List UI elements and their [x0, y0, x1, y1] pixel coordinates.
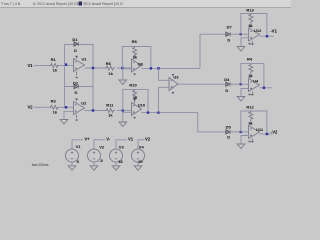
wire right vertical clamp bus — [92, 44, 94, 111]
svg-text:U11: U11 — [256, 127, 264, 132]
ground U4 — [237, 89, 248, 102]
node junction A out — [266, 35, 268, 37]
op-amp U8 — [132, 56, 144, 75]
svg-text:V+: V+ — [84, 136, 90, 141]
svg-text:1k: 1k — [53, 110, 58, 115]
node V1 rail label — [128, 136, 134, 141]
svg-text:U2: U2 — [81, 101, 87, 106]
node junction stage C in — [240, 131, 242, 133]
svg-text:V3: V3 — [119, 144, 125, 149]
node V2 rail label — [145, 136, 151, 141]
svg-text:D2: D2 — [73, 80, 79, 85]
svg-text:U8: U8 — [138, 61, 144, 66]
svg-text:V-: V- — [106, 136, 111, 141]
wire V2 to R3 — [34, 106, 49, 108]
node junction U2 -in — [65, 106, 67, 108]
resistor R1 — [49, 57, 59, 73]
op-amp U2 — [74, 98, 88, 120]
resistor R12 — [246, 105, 254, 126]
diode D5 — [226, 125, 241, 140]
wire U3 upper input tap — [159, 68, 170, 80]
svg-text:U4: U4 — [253, 78, 259, 83]
wire U1 output — [85, 67, 106, 69]
svg-text:V2: V2 — [99, 144, 105, 149]
resistor R13 — [246, 8, 254, 28]
svg-text:D4: D4 — [224, 77, 230, 82]
wire R6 to U8 — [117, 67, 132, 69]
svg-text:V2: V2 — [28, 105, 34, 110]
ground U12 — [237, 38, 248, 51]
svg-text:R11: R11 — [106, 102, 114, 107]
svg-text:R4: R4 — [247, 57, 253, 62]
svg-text:R8: R8 — [132, 39, 138, 44]
svg-text:R13: R13 — [246, 8, 254, 13]
svg-text:D7: D7 — [227, 25, 233, 30]
wire U8 feedback loop — [122, 47, 150, 69]
wire R3 to U2 — [59, 106, 73, 108]
node junction row2 out 1 — [147, 111, 149, 113]
wire R1 to U1 input — [59, 65, 73, 67]
spice directive — [31, 163, 49, 167]
svg-text:U10: U10 — [138, 102, 146, 107]
voltage source V3 — [110, 140, 128, 166]
op-amp U4 — [249, 76, 260, 95]
diode D4 — [224, 77, 241, 93]
wire U8 output to x200 — [142, 67, 201, 69]
ground V4 — [134, 166, 142, 170]
op-amp U11 — [249, 123, 264, 142]
ground V3 — [112, 166, 120, 170]
svg-text:U12: U12 — [254, 28, 262, 33]
node junction U10 in — [122, 109, 124, 111]
svg-text:V2: V2 — [145, 136, 151, 141]
resistor R4 — [247, 57, 253, 78]
svg-text:RC2 circuit Report (10 G: RC2 circuit Report (10 G — [84, 2, 124, 6]
svg-text:D: D — [75, 90, 78, 95]
svg-text:1k: 1k — [53, 67, 58, 72]
svg-text:R3: R3 — [51, 98, 57, 103]
ground U2 — [60, 111, 73, 124]
svg-text:D: D — [74, 48, 77, 53]
node junction U1 -in — [65, 63, 67, 65]
wire V1 to R1 — [34, 65, 49, 67]
title bar — [0, 0, 291, 8]
wire R11 to U10 — [117, 110, 132, 112]
voltage source V4 — [132, 140, 145, 166]
voltage source V1 — [66, 140, 84, 166]
svg-text:V1: V1 — [28, 63, 34, 68]
node junction out 2 — [157, 67, 159, 69]
node V1 input label — [28, 63, 34, 68]
svg-text:1k: 1k — [248, 121, 253, 126]
op-amp U1 — [74, 56, 88, 78]
svg-text:-V1: -V1 — [270, 28, 277, 33]
node V2 input label — [28, 105, 34, 110]
wire U10 output run — [142, 113, 226, 132]
wire stage A input stub — [241, 33, 249, 35]
ground U11 — [237, 136, 248, 149]
wire stage C input stub — [241, 131, 249, 133]
wire U10 feedback loop — [123, 89, 148, 112]
wire stage B input stub — [241, 83, 249, 85]
svg-text:R10: R10 — [129, 82, 137, 87]
svg-text:D5: D5 — [226, 125, 232, 130]
wire U3 lower input tap — [159, 87, 170, 112]
svg-text:V1: V1 — [76, 144, 82, 149]
svg-text:D: D — [227, 38, 230, 43]
wire U12 output — [260, 35, 274, 37]
svg-text:U3: U3 — [173, 74, 179, 79]
ground U10 — [119, 112, 132, 126]
wire stage C feedback loop — [241, 111, 267, 134]
svg-text:R1: R1 — [51, 57, 57, 62]
op-amp U10 — [132, 99, 146, 118]
svg-text:D: D — [225, 88, 228, 93]
node junction B out — [263, 87, 265, 89]
ground V2 — [90, 166, 98, 170]
resistor R6 — [105, 61, 115, 76]
node junction row2 out 2 — [157, 111, 159, 113]
node -V1 output label — [270, 28, 277, 33]
wire riser to stage A — [200, 34, 226, 68]
node junction U2 out — [92, 109, 94, 111]
svg-text:V1: V1 — [128, 136, 134, 141]
wire left vertical clamp bus — [64, 45, 66, 108]
wire stage A feedback loop — [241, 14, 267, 37]
svg-text:.tran 100ms: .tran 100ms — [31, 163, 49, 167]
diode D1 — [72, 37, 78, 53]
svg-text:1k: 1k — [108, 71, 113, 76]
op-amp U12 — [249, 25, 263, 44]
wire mid clamp rail — [65, 86, 94, 88]
svg-text:18: 18 — [118, 159, 123, 164]
svg-text:V4: V4 — [139, 144, 145, 149]
diode D2 — [73, 80, 79, 95]
resistor R3 — [49, 98, 59, 114]
svg-text:D: D — [227, 135, 230, 140]
ground U8 — [119, 69, 132, 85]
resistor R8 — [132, 39, 138, 59]
node junction stage B in — [240, 83, 242, 85]
svg-text:T ms 7 | 4 B: T ms 7 | 4 B — [1, 2, 21, 6]
node junction U8 in — [121, 67, 123, 69]
node -V2 output label — [271, 130, 278, 135]
wire U11 output — [260, 133, 273, 135]
node V- label — [106, 136, 111, 141]
svg-text:1k: 1k — [108, 113, 113, 118]
resistor R10 — [129, 82, 138, 103]
svg-text:A. RC2 circuit Report (10 GH 7: A. RC2 circuit Report (10 GH 7 — [33, 2, 82, 6]
svg-text:20: 20 — [138, 159, 143, 164]
wire U3 output — [178, 83, 226, 85]
node junction stage A in — [240, 33, 242, 35]
node junction out 1 — [150, 67, 152, 69]
diode D7 — [226, 25, 241, 43]
svg-text:D1: D1 — [72, 37, 78, 42]
wire top clamp rail — [65, 44, 94, 46]
op-amp U3 — [169, 74, 179, 93]
svg-text:R6: R6 — [106, 61, 112, 66]
ground V1 — [68, 166, 76, 170]
node junction C out — [266, 133, 268, 135]
svg-text:-V2: -V2 — [271, 130, 278, 135]
svg-text:1k: 1k — [248, 23, 253, 28]
voltage source V2 — [88, 140, 106, 166]
wire U4 output — [260, 87, 273, 89]
node junction U1 out — [92, 67, 94, 69]
resistor R11 — [105, 102, 115, 117]
svg-text:U1: U1 — [82, 56, 88, 61]
wire U2 output — [85, 110, 106, 112]
wire stage B feedback loop — [241, 64, 264, 88]
node V+ label — [84, 136, 90, 141]
svg-text:R12: R12 — [246, 105, 254, 110]
